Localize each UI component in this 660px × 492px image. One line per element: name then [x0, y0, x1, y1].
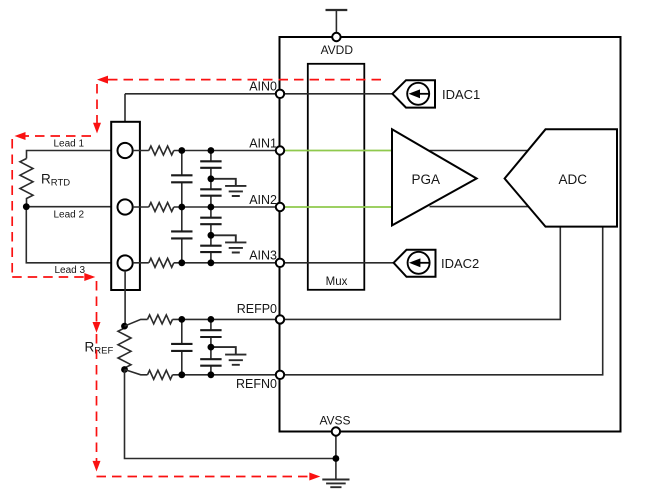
wire AIN0 horizontal — [125, 93, 280, 95]
ground G3 — [211, 347, 247, 365]
wire PGA to ADC top — [430, 150, 529, 152]
IDAC2 U4 — [394, 250, 480, 277]
label Lead 3 — [55, 265, 86, 276]
wire Lead 1 — [27, 151, 118, 159]
svg-text:Mux: Mux — [326, 276, 348, 288]
svg-text:AIN2: AIN2 — [249, 193, 277, 207]
svg-text:REFN0: REFN0 — [236, 377, 277, 391]
ground G2 — [211, 235, 247, 252]
current path IDAC1 to lead1 (red dashed) — [93, 76, 381, 134]
svg-text:Lead 1: Lead 1 — [54, 139, 85, 150]
capacitor C1 differential AIN1-AIN2 — [171, 151, 192, 208]
ground main — [322, 480, 349, 488]
green wire AIN1 to PGA — [284, 150, 392, 152]
svg-text:AVDD: AVDD — [321, 43, 354, 57]
resistor RREF — [85, 326, 132, 369]
resistor R1 and wire to AIN1 — [133, 146, 280, 155]
node RREF bottom — [121, 366, 128, 373]
capacitor C2 differential AIN2-AIN3 — [171, 207, 192, 263]
svg-text:AVSS: AVSS — [319, 414, 350, 428]
node AVSS junction — [333, 455, 340, 462]
node dots AIN lines — [178, 147, 214, 266]
resistor R2 and wire to AIN2 — [133, 203, 280, 212]
svg-text:AIN0: AIN0 — [249, 80, 277, 94]
green wire AIN2 to PGA — [284, 206, 392, 208]
wire AIN3 pin to IDAC2 — [284, 262, 394, 264]
svg-text:ADC: ADC — [559, 172, 588, 187]
wire AIN0 pin to IDAC1 — [284, 93, 392, 95]
node dots REF lines — [178, 316, 214, 378]
pin AIN1 — [249, 136, 284, 154]
svg-text:IDAC1: IDAC1 — [442, 87, 480, 102]
capacitor C8 REFP0 to gnd — [200, 319, 221, 347]
pin AVSS — [319, 414, 350, 436]
svg-text:REFP0: REFP0 — [237, 302, 277, 316]
capacitor C3 AIN1 to gnd — [200, 151, 221, 179]
svg-text:AIN3: AIN3 — [249, 249, 277, 263]
pin AIN0 — [249, 80, 284, 98]
current path to ground (red dashed) — [97, 473, 321, 481]
svg-text:IDAC2: IDAC2 — [441, 256, 479, 271]
current path through RREF (red dashed) — [93, 281, 101, 472]
wire terminal to RREF — [124, 271, 126, 327]
resistor R3 and wire to AIN3 — [133, 258, 280, 267]
power AVDD — [321, 10, 354, 57]
op-amp PGA — [392, 129, 477, 225]
current path left loop (red dashed) — [12, 132, 95, 281]
capacitor C4 AIN2 from gnd — [200, 179, 221, 207]
wire REFN0 to ADC — [284, 227, 603, 375]
label Lead 2 — [54, 209, 85, 220]
pin AIN2 — [249, 193, 284, 211]
capacitor C6 AIN3 from gnd — [200, 235, 221, 262]
pin REFP0 — [237, 302, 284, 324]
wire Lead 2 — [26, 206, 118, 208]
capacitor C7 differential REFP0-REFN0 — [171, 319, 192, 374]
terminal block J1 — [111, 122, 140, 290]
capacitor C5 AIN2 to gnd — [200, 207, 221, 235]
svg-text:PGA: PGA — [412, 172, 441, 187]
pin AIN3 — [249, 249, 284, 267]
capacitor C9 REFN0 from gnd — [200, 347, 221, 375]
pin REFN0 — [236, 371, 284, 392]
Mux U2 — [308, 64, 365, 290]
svg-text:AIN1: AIN1 — [249, 136, 277, 150]
wire lead2 to lead3 — [26, 207, 118, 263]
wire REFP0 to ADC — [284, 227, 560, 320]
wire RREF to AVSS ground — [125, 370, 336, 459]
wire AIN0 vertical to terminal — [124, 94, 126, 144]
svg-text:Lead 2: Lead 2 — [54, 209, 85, 220]
IDAC1 U3 — [392, 80, 480, 107]
wire AVSS pin down — [335, 436, 337, 480]
node RREF top — [121, 323, 128, 330]
resistor R5 and wire to REFN0 — [125, 370, 281, 380]
node lead2 junction — [23, 203, 30, 210]
svg-text:Lead 3: Lead 3 — [55, 265, 86, 276]
resistor R4 and wire to REFP0 — [125, 315, 281, 326]
label Lead 1 — [54, 139, 85, 150]
ground G1 — [211, 179, 247, 196]
ADC chip outline — [280, 37, 621, 432]
resistor RRTD — [20, 159, 70, 207]
wire PGA to ADC bottom — [430, 206, 530, 208]
ADC block — [505, 129, 617, 226]
